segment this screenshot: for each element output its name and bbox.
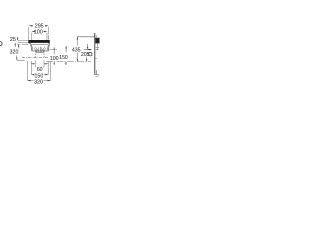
svg-text:320: 320 (34, 80, 43, 86)
svg-text:435: 435 (72, 47, 81, 53)
dimension 60 arrows (outside) (31, 63, 35, 65)
extension line right of 100 top (46, 33, 48, 41)
side view mid tick (95, 58, 97, 60)
extension line left of 295 (28, 27, 30, 40)
svg-text:25: 25 (10, 37, 16, 43)
100 lower arrow below floor (53, 62, 55, 65)
svg-text:320: 320 (10, 50, 19, 56)
basin inner rim line (32, 43, 48, 45)
label 320 bottom (34, 79, 44, 84)
svg-text:205: 205 (81, 52, 90, 58)
dimension 295 line (29, 25, 49, 27)
320 top reference line (17, 43, 28, 45)
label 100 background (34, 29, 44, 34)
dimension 150 (vertical, right of 100) (65, 46, 67, 52)
floor tick left (17, 59, 25, 61)
extension tick rim bottom (18, 42, 28, 44)
outlet reference line (84, 49, 92, 51)
dimension 295 left arrow (29, 25, 33, 27)
basin body inner wall (32, 44, 49, 50)
320 upper arrow (18, 44, 20, 48)
side view top line (77, 36, 95, 38)
extension line right of 295 (47, 27, 49, 40)
side view rim section (dark) (95, 38, 99, 44)
extension tick rim top (18, 39, 28, 41)
svg-text:295: 295 (35, 23, 44, 29)
dimension 435 upper arrow (76, 37, 78, 46)
svg-text:150: 150 (59, 55, 68, 61)
extra floor hatch (37, 49, 44, 51)
floor line (right of basin to side view) (46, 61, 91, 63)
basin body outer wall (30, 43, 49, 51)
label 295 (34, 23, 45, 28)
dimension 320 bottom line (28, 80, 51, 82)
hidden drain line right (43, 51, 45, 57)
dimension 100 (vertical, right of basin) (53, 47, 55, 54)
dimension 435 lower arrow (76, 53, 78, 62)
dimension 100 right arrow (44, 31, 47, 33)
bottom dim extension lines from body bottom (32, 61, 49, 75)
svg-text:150: 150 (34, 73, 43, 79)
dimension 100 left arrow (32, 31, 35, 33)
extension line left of 100 top (31, 33, 33, 41)
side view hidden edge below rim (96, 43, 98, 50)
rim bar (top section of basin, filled) (28, 40, 50, 44)
bottom dim extension lines from rim ends (28, 61, 51, 81)
dimension 205 upper arrow (87, 44, 89, 50)
dimension 205 lower arrow (86, 57, 88, 61)
svg-text:100: 100 (34, 30, 43, 36)
outlet circle (89, 53, 92, 56)
ref tick at drain axis level (49, 49, 57, 51)
side view wall line (94, 33, 96, 75)
25 lower arrow (pointing up to rim bottom) (14, 43, 16, 47)
320 lower arrow to floor (16, 55, 18, 60)
dimension 150 bottom line (32, 74, 49, 76)
dimension 100 top line (32, 30, 47, 32)
side view hidden dashes (96, 48, 99, 50)
trap below basin (36, 51, 43, 53)
chain axis line (dash-dot) (22, 57, 48, 59)
partial glyph at left edge (0, 42, 2, 46)
svg-text:60: 60 (37, 67, 43, 73)
25 upper arrow (pointing down to rim top) (17, 36, 19, 40)
svg-text:100: 100 (50, 56, 59, 62)
hidden drain line left (34, 51, 36, 57)
bottom dim extension lines from drain (35, 60, 44, 67)
basin interior floor slopes (34, 47, 39, 52)
drain channel hatch (39, 47, 42, 53)
150 lower arrow below floor (65, 62, 67, 65)
dimension 295 right arrow (45, 25, 48, 27)
side view foot (97, 70, 100, 75)
